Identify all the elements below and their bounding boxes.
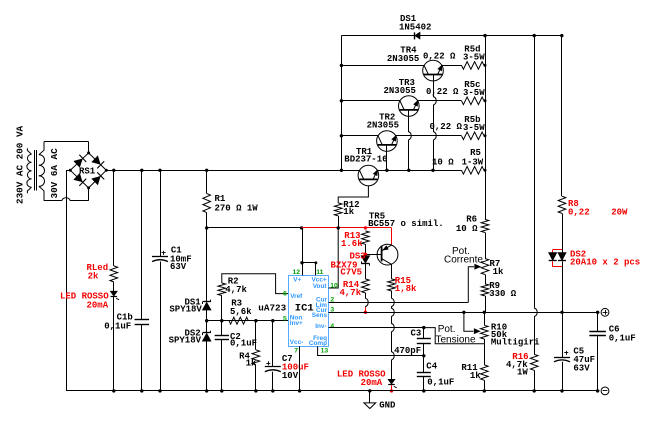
resistor R1 270 Ohm 1W [203,194,211,213]
ground rail [66,390,600,392]
diode DS1 1N5402 [414,32,416,39]
wire R1 bottom to IC supply [207,227,302,229]
wire TR2 emitter row [396,135,462,137]
wire [562,213,564,252]
svg-text:Vref: Vref [290,293,303,300]
transistor TR1 BD237-16 [358,165,379,186]
svg-text:3-5W: 3-5W [463,88,485,98]
capacitor C1 10mF 63V [152,256,168,258]
wire TR2 collector row [341,135,378,137]
wire RLed column top [113,170,115,266]
svg-text:270 Ω 1W: 270 Ω 1W [215,204,259,214]
wire R1 top [206,170,208,193]
LED ROSSO 20mA (panel) [111,291,118,296]
svg-text:1N5402: 1N5402 [399,22,431,32]
wire R10 wiper to output rail [464,312,474,331]
wire [113,297,115,391]
wire IC supply pins 12 11 [302,228,304,263]
capacitor C2 0,1uF [221,321,223,336]
transformer T1 primary 230V [27,148,31,154]
resistor R5b 0,22 3-5W [462,132,485,140]
resistor R5 10 1-3W [462,167,485,175]
wire TR5 base [365,254,381,256]
wire secondary top to bridge [44,141,89,143]
capacitor C3 470pF [423,328,425,338]
wire [113,282,115,291]
svg-text:10 Ω: 10 Ω [432,158,454,168]
resistor RLed 2k [110,266,118,282]
wire [206,341,208,391]
wire pin7 Vcc- to ground [299,346,301,391]
svg-text:230V AC 200 VA: 230V AC 200 VA [14,125,25,204]
wire [160,262,162,391]
wire TR1 base to R12 [338,186,368,203]
zener DS2 SPY18V [203,332,211,334]
svg-text:BC557 o simil.: BC557 o simil. [368,219,444,229]
svg-text:63V: 63V [573,364,590,374]
wire [485,275,487,284]
wire [141,324,143,391]
wire [562,261,564,312]
svg-text:5: 5 [283,315,287,322]
wire C1 column top [160,170,162,256]
wire [221,296,223,321]
svg-text:20mA: 20mA [87,300,109,310]
resistor R9 330 [481,284,489,296]
resistor R5c 0,22 3-5W [462,97,485,105]
zener DS1 SPY18V [203,301,211,303]
svg-text:30V 6A AC: 30V 6A AC [49,148,60,199]
wire [206,228,208,302]
emitter resistor bus [485,36,487,220]
wire R14 bottom with hop, red tail [366,293,369,307]
resistor R16 4,7k 1W [530,354,538,370]
wire pin5 node [207,320,289,322]
resistor R14 4,7k [362,279,370,293]
svg-text:Vcc-: Vcc- [290,339,304,346]
wire TR4 collector row [341,65,424,67]
capacitor C6 0,1uF [597,312,599,331]
transformer T1 secondary 30V [39,142,44,155]
svg-text:Sens: Sens [312,312,328,319]
wire [206,213,208,228]
wire pin2 current limit to R7 wiper [329,302,469,304]
wire raw DC rail [106,170,359,172]
svg-text:BD237-16: BD237-16 [344,155,387,165]
svg-text:SPY18V: SPY18V [169,305,202,315]
bridge diode bottom-right [92,177,100,185]
collector bus vertical [341,36,343,171]
svg-text:0,22 Ω: 0,22 Ω [426,87,459,97]
svg-text:Vout: Vout [313,283,328,290]
capacitor C1b 0,1uF [135,319,150,321]
svg-text:470pF: 470pF [394,346,421,356]
svg-text:1k: 1k [470,371,481,381]
wire TR3 collector row [341,100,400,102]
resistor R6 10 [481,219,489,232]
svg-text:4,7k: 4,7k [340,288,362,298]
svg-text:Multigiri: Multigiri [491,338,540,348]
transformer T1 core [34,150,36,191]
wire secondary bottom to bridge (hop over left bus) [44,198,89,201]
svg-text:1k: 1k [493,267,504,277]
transistor TR3 2N3055 [399,96,420,117]
capacitor C7 100uF 10V [272,321,274,367]
left bus (negative) vertical [66,170,68,391]
wire TR5 collector [391,264,393,279]
svg-text:Corrente: Corrente [444,255,483,266]
svg-text:63V: 63V [170,262,187,272]
transistor TR5 BC557 PNP [377,244,398,265]
svg-text:4,7k: 4,7k [225,285,247,295]
svg-text:12: 12 [293,269,301,276]
svg-text:10V: 10V [282,371,299,381]
wire TR2 base down [386,145,388,170]
zener DS3 BZX79C7V5 [361,263,369,265]
wire pin3 current sense / output rail [329,312,600,314]
resistor R15 1,8k [388,279,396,291]
svg-text:Tensione: Tensione [436,334,476,345]
capacitor C4 0,1uF [417,372,431,374]
svg-text:0,1uF: 0,1uF [230,338,257,348]
wire TR4 base down with hops [434,75,437,171]
svg-text:C3: C3 [411,328,422,338]
svg-text:1k: 1k [343,207,354,217]
svg-text:uA723: uA723 [258,302,286,313]
svg-text:0,1uF: 0,1uF [609,333,636,343]
wire bridge minus to left bus [66,170,70,172]
svg-text:4: 4 [330,323,334,330]
svg-text:RS1: RS1 [79,166,96,176]
svg-text:SPY18V: SPY18V [169,336,202,346]
svg-text:2N3055: 2N3055 [387,54,419,64]
wire C1b column top [141,170,143,319]
bridge diode top-left [74,159,82,167]
terminal output minus [601,387,609,395]
op-amp regulator IC1 uA723 box [289,276,329,347]
svg-text:3-5W: 3-5W [463,52,485,62]
ground GND symbol [369,391,371,403]
wire [365,244,367,256]
svg-text:R1: R1 [215,194,226,204]
bridge rectifier RS1 [70,153,106,188]
svg-text:1W: 1W [517,367,528,377]
potentiometer R10 50k Multigiri [484,312,486,325]
svg-text:C4: C4 [426,362,437,372]
wire [534,370,536,391]
bridge diode bottom-left [74,174,82,182]
svg-text:Inv-: Inv- [315,323,326,330]
svg-text:11: 11 [316,269,323,276]
capacitor C5 47uF 63V [562,312,564,357]
transistor TR4 2N3055 [423,60,444,81]
transistor TR2 2N3055 [377,131,398,152]
svg-text:1k: 1k [246,358,257,368]
resistor R3 5,6k [229,317,248,324]
wire [561,36,563,197]
svg-text:5,6k: 5,6k [230,307,252,317]
terminal output plus [601,308,609,316]
svg-text:0,22 Ω: 0,22 Ω [430,122,463,132]
wire [206,310,208,333]
svg-text:10 Ω: 10 Ω [456,224,478,234]
svg-text:6: 6 [283,291,287,298]
svg-text:Comp: Comp [309,340,327,347]
wire Vref pin6 to R2 [222,274,289,294]
wire Vout pin10 riser [329,228,339,288]
svg-text:V+: V+ [293,276,301,283]
resistor R5d 0,22 3-5W [462,62,485,70]
resistor R2 4,7k [218,283,226,296]
svg-text:20A10 x 2 pcs: 20A10 x 2 pcs [570,258,640,268]
wire R15 to LED with hops [392,291,395,380]
wire TR4 emitter row [442,65,462,67]
wire top rail (output node) [341,35,561,37]
svg-text:3-5W: 3-5W [463,123,485,133]
wire red TR5 emitter [391,228,393,245]
svg-text:Inv+: Inv+ [290,320,303,327]
svg-text:0,22 Ω: 0,22 Ω [423,52,456,62]
wire red base drive [302,227,392,229]
potentiometer R7 1k [481,259,489,275]
svg-text:GND: GND [379,401,396,411]
wire pin4 inv input [329,327,424,329]
resistor R13 1.6k [362,231,370,244]
wire TR3 base down with hop [409,110,412,170]
svg-text:1-3W: 1-3W [462,158,484,168]
wire [365,264,367,279]
svg-text:2k: 2k [88,272,99,282]
wire R16 column with hop [535,36,538,355]
svg-text:0,1uF: 0,1uF [104,321,131,331]
wire red LED to ground [391,385,393,391]
svg-text:7: 7 [294,348,298,355]
wire TR1 emitter row [377,170,461,172]
bridge diode top-right [92,156,100,164]
svg-text:330 Ω: 330 Ω [489,289,517,299]
resistor R4 1k [255,321,257,350]
wire TR3 emitter row [418,100,462,102]
svg-text:2N3055: 2N3055 [384,86,416,96]
wire pin13 freq comp [318,346,424,355]
svg-text:0,22 20W: 0,22 20W [568,207,628,217]
wire [485,296,487,312]
diode DS2 pair 20A10 [558,253,566,261]
svg-text:20mA: 20mA [361,378,383,388]
resistor R11 1k [484,344,486,365]
LED ROSSO 20mA (current limit) [388,379,395,384]
svg-text:2N3055: 2N3055 [367,121,399,131]
wire [485,233,487,259]
wire [338,216,340,228]
svg-text:13: 13 [321,348,329,355]
resistor R12 1k [334,203,342,216]
svg-text:C7V5: C7V5 [340,268,362,278]
svg-text:0,1uF: 0,1uF [427,377,454,387]
resistor R8 0,22 20W [558,196,566,213]
svg-text:1,8k: 1,8k [395,284,417,294]
svg-text:1.6k: 1.6k [341,239,363,249]
